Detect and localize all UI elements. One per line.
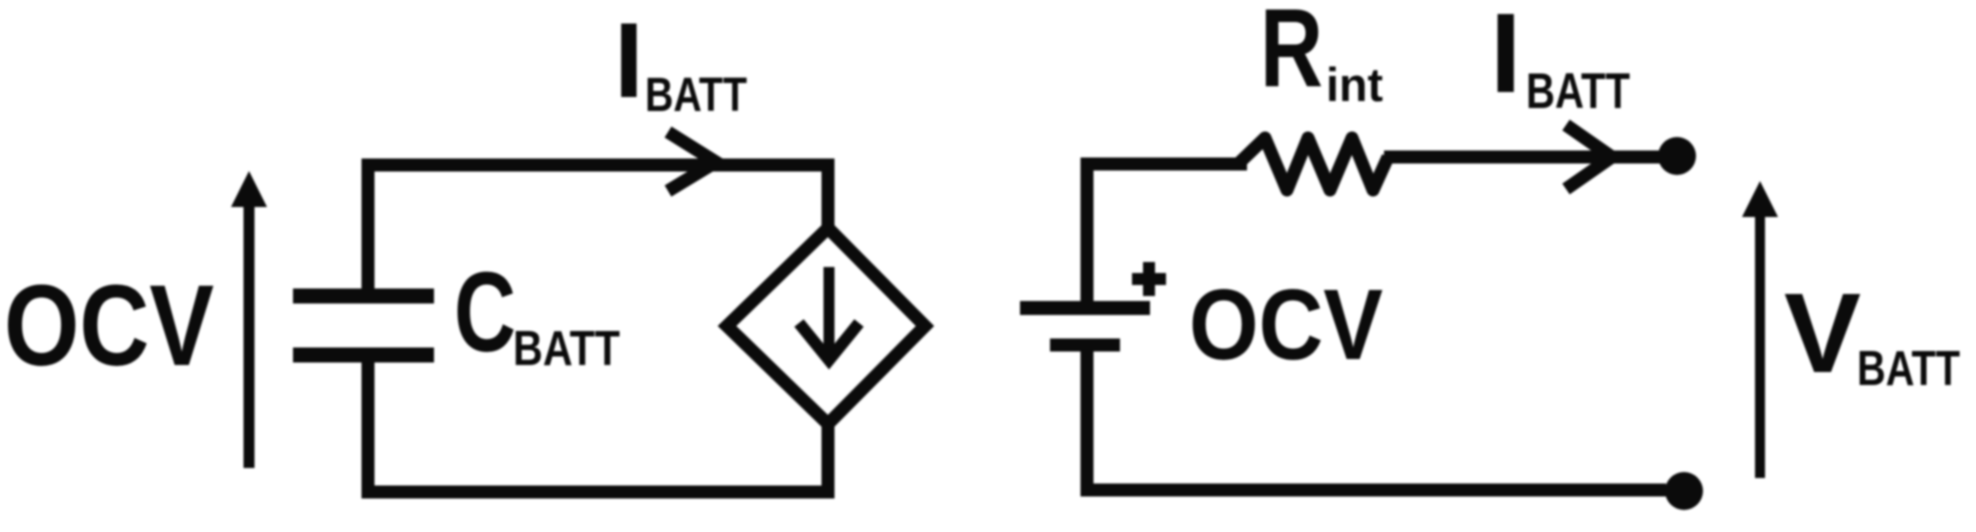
plus sign [1132,262,1166,296]
svg-text:OCV: OCV [1189,269,1383,381]
wire: left loop bottom (from source bottom down, bottom horizontal, left vertical below capacitor) [368,362,828,492]
current arrowhead I_BATT (left) [668,132,716,191]
label R_int [1260,0,1383,111]
svg-text:BATT: BATT [1857,342,1960,396]
current arrowhead I_BATT (right) [1566,125,1612,189]
label I_BATT (left) [614,0,747,122]
svg-text:I: I [1490,0,1521,116]
wire: right loop top-left (battery up and across to resistor) [1087,164,1247,302]
battery OCV plates [1020,308,1150,345]
svg-text:BATT: BATT [1526,63,1630,119]
svg-text:BATT: BATT [645,69,747,122]
terminal node (bottom right) [1665,472,1703,510]
svg-text:I: I [614,0,644,120]
svg-text:R: R [1260,0,1323,110]
dependent current source (diamond with down arrow) [727,228,925,424]
svg-text:BATT: BATT [513,322,620,376]
svg-text:V: V [1784,270,1861,396]
label V_BATT [1784,270,1960,396]
svg-text:C: C [454,249,516,375]
terminal node (top right) [1658,137,1696,175]
label C_BATT [454,249,620,376]
voltage arrow OCV (left) [231,171,267,468]
wire: left loop top (left vertical above capacitor, top horizontal, right vertical to source) [368,165,828,293]
wire: right loop top-right (resistor to terminal) [1384,151,1660,164]
capacitor C_BATT plates [293,296,434,355]
wire: right loop bottom (battery down, bottom horizontal to terminal) [1087,351,1666,490]
svg-text:int: int [1326,58,1383,111]
resistor R_int [1238,138,1388,190]
voltage arrow V_BATT [1742,181,1778,478]
label I_BATT (right) [1490,0,1630,119]
svg-text:OCV: OCV [4,262,214,390]
